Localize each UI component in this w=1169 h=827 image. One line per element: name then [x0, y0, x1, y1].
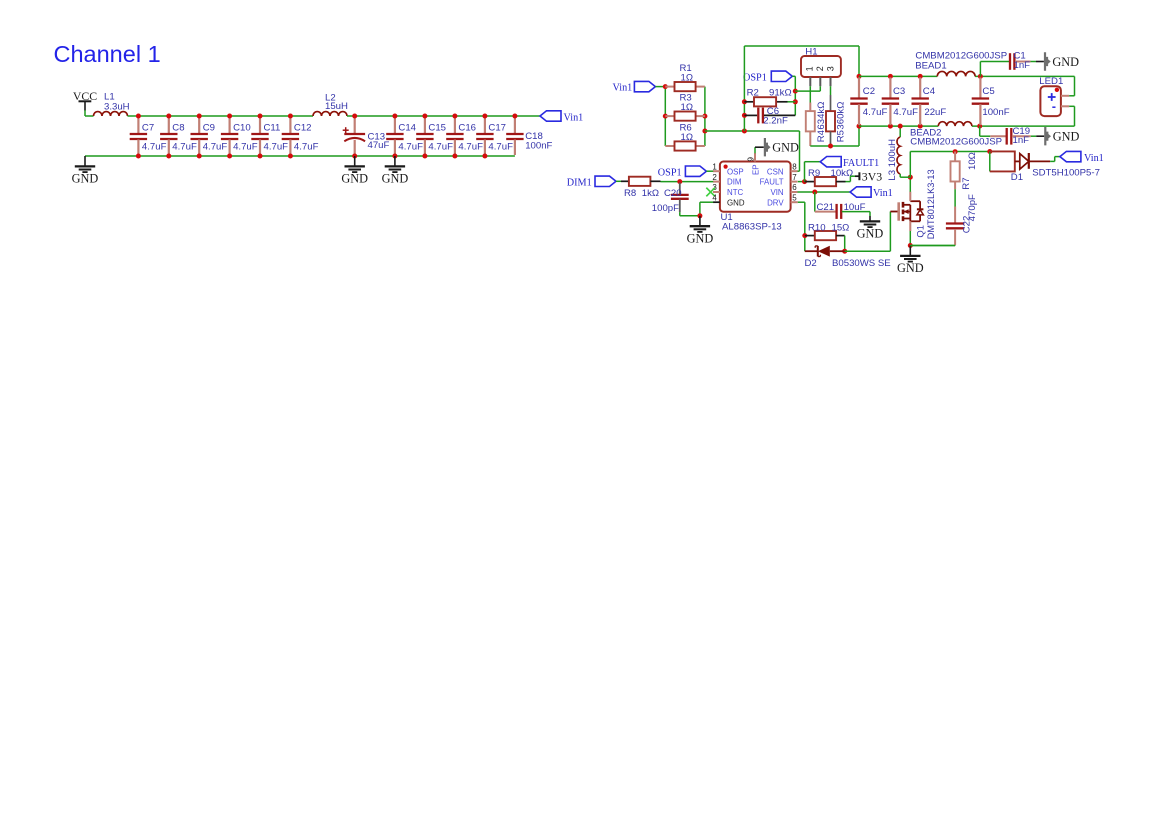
pin 2 DIM [713, 181, 720, 183]
svg-text:C17: C17 [488, 123, 506, 134]
wire left vert R2C6 [743, 46, 745, 131]
svg-text:VIN: VIN [770, 188, 783, 197]
svg-text:GND: GND [382, 172, 409, 186]
ground GND under Q1 [909, 246, 911, 256]
junction C16 top [452, 114, 457, 119]
svg-text:4.7uF: 4.7uF [428, 141, 453, 152]
wire OSP1 to pin1 [706, 170, 713, 172]
wire source down [909, 231, 911, 246]
inductor L2 [313, 112, 347, 116]
svg-text:DRV: DRV [767, 198, 784, 207]
junction C2 top [857, 74, 862, 79]
pin 1 OSP [713, 170, 720, 172]
port Vin1 input mid [634, 81, 655, 91]
resistor R3 1Ω [665, 115, 674, 117]
junction C10 top [227, 114, 232, 119]
svg-text:R9: R9 [808, 168, 820, 179]
svg-text:EP: EP [751, 164, 760, 175]
junction R7 top [953, 149, 958, 154]
svg-text:4.7uF: 4.7uF [863, 107, 888, 118]
svg-text:FAULT: FAULT [760, 178, 784, 187]
wire VIN node down to C21 [814, 192, 816, 212]
svg-text:FAULT1: FAULT1 [843, 158, 879, 169]
junction C11 bottom [258, 154, 263, 159]
pin 9 EP [754, 153, 756, 162]
svg-text:4.7uF: 4.7uF [172, 141, 197, 152]
svg-text:VCC: VCC [73, 89, 97, 103]
pin 6 VIN [791, 191, 798, 193]
svg-text:470pF: 470pF [967, 194, 978, 221]
svg-text:4.7uF: 4.7uF [142, 141, 167, 152]
capacitor C10 [229, 117, 231, 134]
wire VCC to rail [84, 110, 86, 116]
wire drain node up [909, 152, 911, 178]
wire top rail C7-L2 [138, 115, 313, 117]
wire drain row [910, 151, 990, 153]
svg-text:C12: C12 [294, 123, 312, 134]
wire DIM1 to R8 [616, 180, 621, 182]
svg-text:NTC: NTC [727, 188, 744, 197]
capacitor C12 [289, 117, 291, 134]
svg-text:R8: R8 [624, 188, 636, 199]
junction C2 bottom [857, 124, 862, 129]
svg-text:22uF: 22uF [924, 107, 946, 118]
wire right bus R1-R6 [704, 87, 706, 146]
ground GND under C14 [394, 156, 396, 166]
junction C10 bottom [227, 154, 232, 159]
svg-text:100pF: 100pF [652, 203, 679, 214]
junction C8 top [166, 114, 171, 119]
svg-text:4.7uF: 4.7uF [893, 107, 918, 118]
pin LED1 anode [1061, 95, 1069, 97]
inductor L1 [94, 112, 128, 116]
svg-text:R2: R2 [747, 88, 759, 99]
svg-text:5: 5 [792, 193, 797, 202]
junction C15 top [422, 114, 427, 119]
svg-text:C9: C9 [203, 123, 215, 134]
capacitor C14 [394, 117, 396, 134]
capacitor C16 [454, 117, 456, 134]
resistor R6 1Ω [665, 145, 674, 147]
svg-text:C20: C20 [664, 188, 682, 199]
svg-text:3V3: 3V3 [862, 170, 882, 184]
wire LED anode loop [1069, 95, 1074, 97]
svg-text:1nF: 1nF [1014, 60, 1031, 71]
wire pin2 H1 horizontal [795, 90, 820, 92]
svg-text:C11: C11 [264, 123, 281, 134]
pin 7 FAULT [791, 181, 798, 183]
junction C7 top [136, 114, 141, 119]
svg-text:C4: C4 [923, 86, 936, 97]
svg-text:C21: C21 [817, 202, 835, 213]
svg-text:Vin1: Vin1 [1084, 153, 1104, 164]
capacitor C9 [198, 117, 200, 134]
diode D1 SDT5H100P5-7 [989, 152, 991, 172]
resistor R2 91kΩ [744, 101, 754, 103]
capacitor C5 100nF [979, 77, 981, 98]
wire source to C22 [910, 245, 955, 247]
svg-text:Vin1: Vin1 [613, 83, 633, 94]
svg-text:2: 2 [712, 173, 717, 182]
wire FAULT1 [804, 162, 806, 182]
svg-text:1Ω: 1Ω [681, 132, 694, 143]
junction C12 bottom [288, 154, 293, 159]
svg-text:C16: C16 [458, 123, 476, 134]
resistor R8 1kΩ [621, 180, 629, 182]
pin 3 H1 [830, 77, 832, 86]
wire exit to CSN [705, 130, 800, 132]
svg-text:GND: GND [72, 172, 99, 186]
svg-text:R10: R10 [808, 222, 826, 233]
ground GND arrow C19 [1036, 135, 1044, 137]
junction C3 top [888, 74, 893, 79]
junction C4 top [918, 74, 923, 79]
junction C16 bottom [452, 154, 457, 159]
LED LED1 [1040, 86, 1061, 116]
svg-text:7: 7 [792, 173, 797, 182]
svg-text:GND: GND [341, 172, 368, 186]
svg-text:C7: C7 [142, 123, 154, 134]
junction D2 cathode node [842, 249, 847, 254]
svg-text:GND: GND [772, 141, 799, 155]
junction C13 bottom [352, 154, 357, 159]
svg-text:GND: GND [687, 231, 714, 245]
svg-text:100nF: 100nF [525, 140, 552, 151]
capacitor C19 1nF [979, 126, 981, 136]
junction right bus R3 [702, 114, 707, 119]
junction left bus R3 [663, 114, 668, 119]
svg-text:Q1: Q1 [914, 225, 925, 238]
wire R4 R5 bottom [810, 145, 859, 147]
capacitor C6 2.2nF [744, 114, 757, 116]
capacitor C11 [259, 117, 261, 134]
svg-text:R5: R5 [836, 130, 847, 142]
svg-text:4: 4 [712, 193, 717, 202]
junction C11 top [258, 114, 263, 119]
wire D2 to Q1 gate [845, 250, 891, 252]
svg-text:GND: GND [1052, 55, 1079, 69]
svg-text:L3 100uH: L3 100uH [887, 139, 898, 181]
wire pin6 to Vin1 [798, 191, 851, 193]
wire OSP1 down [792, 75, 795, 77]
svg-text:GND: GND [1053, 130, 1080, 144]
ground GND under C13 [354, 156, 356, 166]
svg-text:H1: H1 [805, 47, 817, 58]
junction OSP1 pin2 wire [793, 89, 798, 94]
resistor R4 634kΩ [809, 86, 811, 102]
junction C14 top [392, 114, 397, 119]
resistor R1 1Ω [665, 86, 674, 88]
pin 3 NTC [713, 191, 720, 193]
wire R10 right down [844, 236, 846, 252]
pin 1 H1 [809, 77, 811, 86]
svg-text:AL8863SP-13: AL8863SP-13 [722, 222, 782, 233]
ground GND arrow EP [755, 146, 764, 148]
capacitor C21 10uF [815, 211, 836, 213]
port Vin1 far right [1060, 151, 1081, 161]
wire upper rail [859, 75, 937, 77]
svg-text:6: 6 [792, 183, 797, 192]
ground GND under U1 [699, 216, 701, 226]
wire bottom rail [85, 155, 515, 157]
svg-text:D2: D2 [805, 258, 817, 269]
junction C5 bottom [977, 124, 982, 129]
wire right vert top [858, 46, 860, 76]
svg-text:GND: GND [897, 261, 924, 275]
svg-text:Channel 1: Channel 1 [54, 41, 161, 67]
wire R7 to C22 [954, 189, 956, 206]
junction C5 top [978, 74, 983, 79]
svg-text:47uF: 47uF [368, 140, 390, 151]
svg-text:LED1: LED1 [1039, 76, 1063, 87]
pin 5 DRV [791, 201, 798, 203]
svg-text:4.7uF: 4.7uF [488, 141, 513, 152]
svg-text:BEAD1: BEAD1 [915, 61, 946, 72]
capacitor C17 [484, 117, 486, 134]
ground GND arrow C1 [1036, 61, 1044, 63]
junction D1 anode [987, 149, 992, 154]
svg-text:91kΩ: 91kΩ [769, 88, 792, 99]
svg-text:DIM1: DIM1 [567, 178, 592, 189]
svg-text:1nF: 1nF [1013, 135, 1030, 146]
svg-text:3: 3 [826, 66, 836, 71]
capacitor C13 47uF polarized [354, 117, 356, 133]
svg-text:2: 2 [815, 66, 825, 71]
inductor L3 100uH [899, 126, 901, 137]
connector H1 [801, 56, 841, 77]
junction R2 right [793, 99, 798, 104]
port Vin1 left output [540, 111, 561, 121]
junction C15 bottom [422, 154, 427, 159]
pin 2 H1 [819, 77, 821, 86]
ground GND under C21 [869, 212, 871, 216]
capacitor C20 100pF [679, 183, 681, 195]
junction C18 top [512, 114, 517, 119]
svg-text:10Ω: 10Ω [967, 152, 978, 170]
svg-text:C14: C14 [398, 123, 416, 134]
svg-text:3.3uH: 3.3uH [104, 102, 130, 113]
svg-text:9: 9 [746, 157, 755, 162]
svg-text:1: 1 [805, 66, 815, 71]
svg-text:CSN: CSN [767, 167, 784, 176]
pin LED1 cathode [1061, 105, 1069, 107]
op-amp U1 AL8863SP-13 body [720, 162, 791, 212]
junction L3 tap [898, 124, 903, 129]
svg-text:C15: C15 [428, 123, 446, 134]
svg-text:DIM: DIM [727, 178, 741, 187]
junction C17 top [482, 114, 487, 119]
power 3V3 [855, 175, 859, 177]
svg-text:CMBM2012G600JSP: CMBM2012G600JSP [910, 137, 1002, 148]
port Vin1 at VIN [850, 187, 871, 197]
svg-text:OSP: OSP [727, 167, 744, 176]
pin 8 CSN [791, 170, 798, 172]
junction C14 bottom [392, 154, 397, 159]
svg-text:C2: C2 [863, 86, 875, 97]
junction source [908, 243, 913, 248]
junction C3 bottom [888, 124, 893, 129]
svg-text:GND: GND [727, 198, 745, 207]
junction right bus exit [702, 129, 707, 134]
capacitor C22 470pF [954, 207, 956, 223]
junction C13 top [352, 114, 357, 119]
junction L3 drain [908, 175, 913, 180]
svg-text:4.7uF: 4.7uF [294, 141, 319, 152]
capacitor C4 22uF [919, 77, 921, 98]
junction C12 top [288, 114, 293, 119]
wire C20 bottom [679, 212, 681, 216]
svg-text:15uH: 15uH [325, 101, 348, 112]
pin 4 GND [713, 201, 720, 203]
junction C9 top [197, 114, 202, 119]
svg-text:1Ω: 1Ω [681, 102, 694, 113]
svg-text:15Ω: 15Ω [832, 222, 850, 233]
wire D1 to Vin1 [1050, 160, 1055, 162]
junction C20 top [677, 179, 682, 184]
capacitor C7 [137, 117, 139, 134]
wire lower rail [859, 125, 938, 127]
svg-text:2.2nF: 2.2nF [763, 116, 788, 127]
svg-text:360kΩ: 360kΩ [836, 102, 847, 130]
wire pin8 vert [798, 170, 800, 172]
junction R10 left [802, 233, 807, 238]
junction R2 left [742, 99, 747, 104]
junction C8 bottom [166, 154, 171, 159]
wire EP up [754, 147, 756, 153]
svg-text:Vin1: Vin1 [873, 188, 893, 199]
resistor R5 360kΩ [830, 86, 832, 95]
svg-text:OSP1: OSP1 [743, 72, 767, 83]
junction gnd U1 [697, 213, 702, 218]
svg-text:4.7uF: 4.7uF [264, 141, 289, 152]
resistor R7 10Ω [954, 152, 956, 162]
svg-text:4.7uF: 4.7uF [233, 141, 258, 152]
inductor BEAD1 [937, 71, 975, 76]
ground GND left [84, 156, 86, 166]
capacitor C15 [424, 117, 426, 134]
wire left bus R1-R6 [664, 87, 666, 146]
capacitor C18 100nF [514, 117, 516, 134]
junction exit left vert [742, 129, 747, 134]
wire top long [744, 45, 859, 47]
power VCC [79, 100, 92, 102]
junction Vin1 bus [663, 84, 668, 89]
svg-text:4.7uF: 4.7uF [203, 141, 228, 152]
wire R8 to DIM [661, 181, 680, 183]
svg-text:Vin1: Vin1 [564, 112, 584, 123]
svg-text:C8: C8 [172, 123, 184, 134]
junction C7 bottom [136, 154, 141, 159]
wire LED cathode loop [1069, 105, 1074, 107]
svg-text:10uF: 10uF [844, 202, 866, 213]
svg-text:SDT5H100P5-7: SDT5H100P5-7 [1032, 168, 1100, 179]
wire Vin1 to bus [655, 86, 665, 88]
transistor Q1 DMT8012LK3-13 [897, 202, 900, 220]
no-connect X pin 3 [706, 188, 715, 197]
svg-text:1kΩ: 1kΩ [642, 188, 659, 199]
svg-text:100nF: 100nF [982, 107, 1009, 118]
capacitor C3 4.7uF [889, 77, 891, 98]
wire top rail L2-Vin1 [347, 115, 540, 117]
wire L1 to C7 [128, 115, 139, 117]
svg-text:B0530WS SE: B0530WS SE [832, 258, 891, 269]
resistor R9 10kΩ [798, 181, 805, 183]
wire pin4 to gnd [700, 201, 713, 203]
svg-text:OSP1: OSP1 [658, 167, 682, 178]
svg-text:C3: C3 [893, 86, 905, 97]
resistor R10 15Ω [805, 235, 815, 237]
junction R5 bottom [828, 144, 833, 149]
svg-text:D1: D1 [1011, 172, 1023, 183]
capacitor C8 [168, 117, 170, 134]
junction C4 bottom [918, 124, 923, 129]
svg-text:C5: C5 [982, 86, 994, 97]
capacitor C2 4.7uF [858, 77, 860, 98]
wire top rail left [85, 115, 94, 117]
junction C9 bottom [197, 154, 202, 159]
wire DRV down [798, 201, 805, 203]
inductor BEAD2 [938, 122, 972, 126]
svg-text:GND: GND [857, 227, 884, 241]
junction C6 left [742, 113, 747, 118]
svg-text:C10: C10 [233, 123, 251, 134]
wire drain up [909, 177, 911, 192]
diode D2 B0530WS schottky [805, 250, 818, 252]
svg-text:1Ω: 1Ω [681, 72, 694, 83]
junction C17 bottom [482, 154, 487, 159]
port FAULT1 [820, 157, 841, 167]
svg-text:4.7uF: 4.7uF [398, 141, 423, 152]
svg-text:R7: R7 [961, 177, 972, 189]
svg-text:1: 1 [712, 162, 717, 171]
svg-text:CMBM2012G600JSP: CMBM2012G600JSP [915, 51, 1007, 62]
svg-text:DMT8012LK3-13: DMT8012LK3-13 [926, 169, 936, 239]
junction pin6 [812, 190, 817, 195]
wire R9 to 3V3 [846, 181, 851, 183]
svg-text:8: 8 [792, 162, 797, 171]
svg-text:4.7uF: 4.7uF [458, 141, 483, 152]
capacitor C1 1nF [979, 62, 981, 77]
